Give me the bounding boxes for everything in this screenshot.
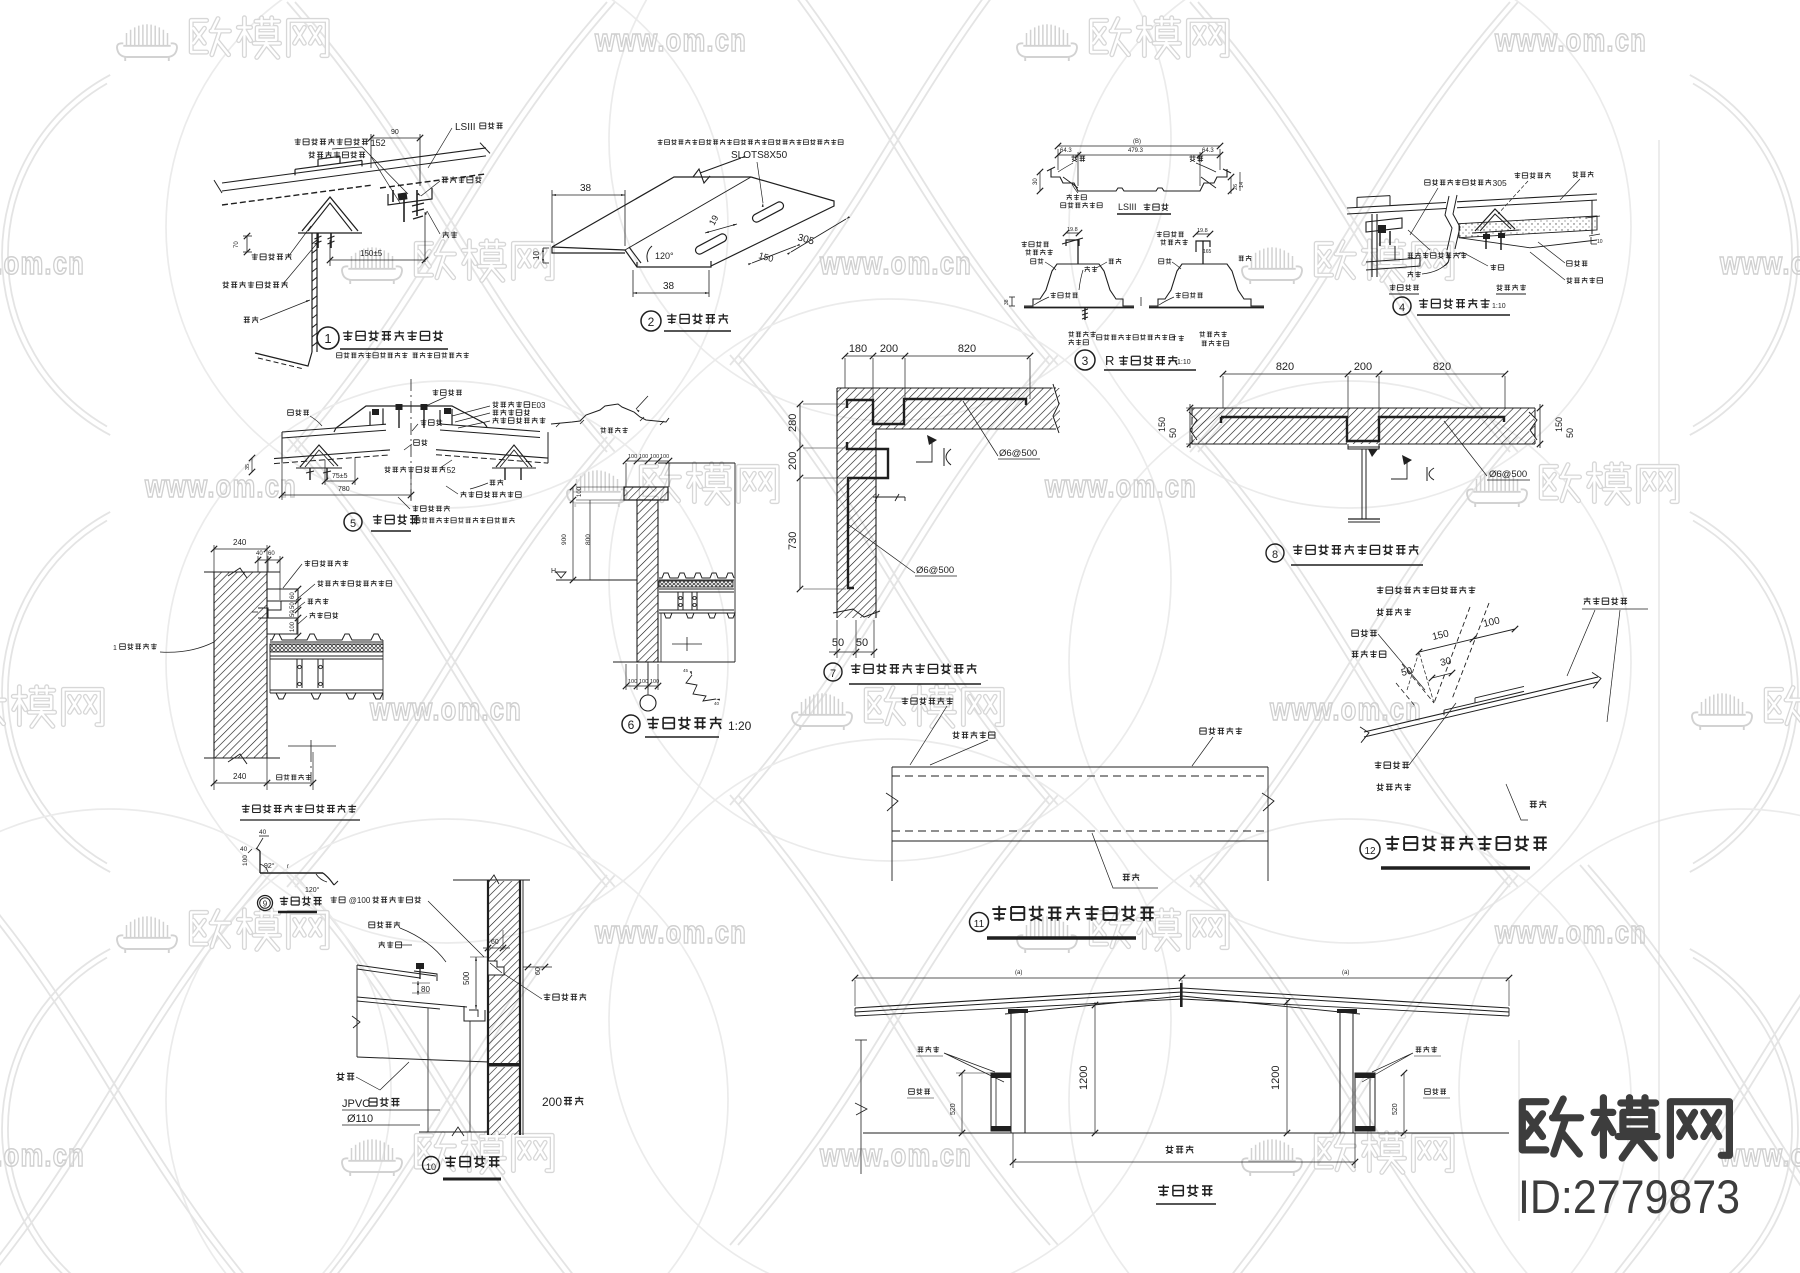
detail 1 right lap clip with fasteners [388, 188, 432, 222]
detail 2 dim 38 top-left [552, 183, 625, 246]
detail 7 bottom dims 50 50 [829, 620, 877, 658]
detail 1 label: liner panel [443, 231, 458, 238]
detail 2 dim 38 bottom [633, 270, 709, 297]
detail 10 brick wall with double edge lines [453, 875, 530, 1135]
detail 6 title: node detail two 1:20 [622, 715, 752, 737]
skylight right channel dims and labels [1362, 1046, 1450, 1136]
detail 7 rebar label lower [849, 525, 957, 576]
detail 6 top dims 100x4 [623, 454, 672, 487]
detail 1 label: support connection [222, 281, 287, 288]
detail 11 panel plan lines [886, 767, 1274, 881]
detail 6 brick wall with hatch [637, 500, 658, 662]
detail 2 top edge break mark and arrow [693, 156, 745, 183]
detail 5 dims below [245, 455, 414, 500]
gable flashing caption [240, 805, 360, 821]
detail 4 title bubble [1393, 297, 1510, 315]
svg-text:100: 100 [650, 679, 659, 685]
detail 10 dim 80 [412, 981, 430, 995]
detail 12 title [1360, 836, 1547, 868]
detail 4 left clip assembly with screws [1366, 214, 1420, 277]
svg-text:92°: 92° [264, 862, 275, 870]
svg-text:100: 100 [628, 454, 637, 460]
gable flashing center mark and lower lines [288, 740, 336, 785]
detail 10 dim 500 [462, 957, 488, 1009]
detail 8 side dims 150 50 left [1157, 404, 1193, 448]
detail 6 concrete capping beam [624, 487, 668, 500]
detail 5 title bubble [344, 513, 515, 531]
detail 1 note text line [337, 352, 469, 358]
detail 6 lower wall edge and center mark [661, 613, 702, 662]
detail 1 dimension 90 top [368, 129, 423, 186]
detail 4 sloped roof band left segment [1347, 196, 1446, 214]
site logo brand characters [1522, 1098, 1729, 1158]
svg-text:1:10: 1:10 [1492, 303, 1506, 310]
skylight top dimension line [852, 970, 1512, 1006]
svg-text:E03: E03 [531, 401, 546, 410]
svg-text:T: T [1172, 336, 1177, 343]
svg-text:100: 100 [628, 679, 637, 685]
detail 9 title double bubble [258, 896, 322, 913]
svg-text:www.om.cn: www.om.cn [369, 691, 522, 727]
svg-text:60: 60 [491, 939, 499, 946]
svg-text:1: 1 [324, 331, 331, 346]
gable flashing bottom dims [211, 752, 316, 790]
detail 2 angle 120 label and arc [647, 246, 674, 262]
svg-text:60: 60 [290, 592, 296, 599]
svg-text:10: 10 [1597, 239, 1603, 245]
svg-text:www.om.cn: www.om.cn [594, 22, 747, 58]
detail 5 center fastener pins [396, 404, 428, 428]
detail 10 dim 60 right rotated [523, 964, 552, 975]
svg-text:100: 100 [639, 679, 648, 685]
svg-text:40: 40 [259, 829, 267, 836]
gable flashing wall section with hatch [204, 568, 280, 764]
svg-text:165: 165 [1203, 249, 1212, 255]
svg-text:200: 200 [880, 343, 898, 355]
svg-text:200: 200 [542, 1095, 562, 1109]
svg-text:JPVC: JPVC [342, 1098, 370, 1110]
detail 8 wall band plan with hatch [1188, 408, 1537, 444]
svg-text:Ø110: Ø110 [347, 1113, 373, 1125]
svg-text:LSIII: LSIII [455, 122, 476, 133]
svg-text:www.om.cn: www.om.cn [1269, 691, 1422, 727]
svg-text:60: 60 [535, 967, 542, 975]
svg-text:www.om.cn: www.om.cn [0, 1137, 85, 1173]
svg-text:120°: 120° [305, 886, 320, 894]
detail 2 gable connector plate isometric outline [552, 177, 834, 267]
svg-text:152: 152 [371, 138, 386, 148]
svg-text:35: 35 [245, 464, 251, 470]
svg-text:60: 60 [268, 551, 275, 557]
detail 6 right enclosure box [613, 463, 735, 662]
detail 9 dims and angles [240, 829, 327, 894]
svg-text:70: 70 [234, 241, 240, 248]
detail 12 labels left [1352, 586, 1476, 690]
detail 1 label: stainless flashing strip [442, 176, 482, 183]
svg-text:50: 50 [290, 610, 296, 617]
svg-text:www.om.cn: www.om.cn [819, 1137, 972, 1173]
detail 7 spur mark below corner [873, 494, 905, 501]
svg-text:200: 200 [787, 452, 799, 470]
svg-text:(a): (a) [1015, 970, 1022, 976]
svg-text:1:10: 1:10 [1177, 359, 1191, 366]
detail 4 sloped roof band right segment with stipple insulation [1457, 194, 1597, 248]
detail 2 dim 305 right edge [787, 216, 850, 255]
svg-text:240: 240 [233, 538, 247, 547]
svg-text:200: 200 [1354, 361, 1372, 373]
detail 2 slot holes 8x50 [694, 200, 785, 255]
svg-text:90: 90 [391, 129, 399, 136]
detail 10 labels top: nail and gutter plate [331, 896, 484, 962]
svg-text:9: 9 [263, 900, 268, 909]
svg-text:280: 280 [787, 414, 799, 432]
skylight ridge center joint [1180, 983, 1183, 1007]
svg-text:www.om.cn: www.om.cn [1044, 468, 1197, 504]
skylight right side channel frame [1355, 1073, 1375, 1131]
vertical fold hairlines [1658, 140, 1660, 1221]
svg-text:38: 38 [663, 281, 675, 292]
svg-text:www.om.cn: www.om.cn [594, 914, 747, 950]
gable flashing step pieces on wall [252, 589, 298, 634]
detail 2 title bubble and text [641, 311, 731, 331]
svg-text:www.om.cn: www.om.cn [1494, 914, 1647, 950]
svg-text:10: 10 [532, 251, 541, 260]
detail 5 left panel assembly [274, 408, 390, 480]
svg-text:820: 820 [1276, 361, 1294, 373]
skylight left curb post [1008, 1009, 1028, 1133]
detail 8 title [1266, 544, 1423, 565]
svg-text:100: 100 [639, 454, 648, 460]
detail 2 dim 150 right [748, 244, 800, 266]
detail 7 top dims 180 200 820 [842, 343, 1033, 400]
detail 3 R-seam labels [1004, 231, 1251, 306]
svg-text:www.om.cn: www.om.cn [819, 245, 972, 281]
svg-text:6: 6 [628, 718, 635, 732]
svg-text:8: 8 [1272, 549, 1278, 561]
detail 6 insulation cross-hatch band [659, 581, 733, 587]
svg-text:www.om.cn: www.om.cn [0, 245, 85, 281]
svg-text:(a): (a) [1342, 970, 1349, 976]
detail 7 title [824, 663, 981, 684]
svg-text:50: 50 [1168, 428, 1178, 438]
skylight left channel dims and labels [907, 1046, 1004, 1136]
svg-text:Ø6@500: Ø6@500 [1489, 469, 1527, 480]
detail 3 R-seam right roof panel mountain profile [1149, 228, 1264, 308]
svg-text:100: 100 [660, 454, 669, 460]
gable flashing beam and purlins with bolts [270, 640, 383, 700]
detail 8 notch below wall center [1348, 444, 1379, 449]
svg-text:(B): (B) [1133, 139, 1141, 145]
svg-text:45: 45 [683, 668, 689, 673]
svg-text:LSIII: LSIII [1118, 202, 1137, 212]
skylight roof gable beam lines [855, 988, 1509, 1016]
svg-text:150: 150 [1157, 417, 1167, 432]
svg-text:1: 1 [113, 645, 117, 652]
svg-text:3: 3 [1082, 354, 1089, 368]
svg-text:520: 520 [1392, 1103, 1399, 1115]
skylight left edge reference line [855, 1040, 867, 1174]
detail 10 label color-steel flashing [504, 974, 586, 1001]
detail 1 label: roof panel support [252, 253, 292, 260]
svg-text:150: 150 [1554, 417, 1564, 432]
svg-text:500: 500 [462, 971, 471, 985]
detail 2 dim 19 on plate [705, 213, 737, 233]
detail 1 label: sealant at panel end lap [308, 151, 365, 158]
detail 2 note text and SLOTS8X50 [658, 139, 844, 207]
svg-text:64.3: 64.3 [1060, 148, 1072, 154]
detail 11 title [970, 906, 1154, 938]
detail 7 upper anchor rebar thick line [847, 399, 1026, 424]
detail 3 LSIII sheet profile section [1047, 167, 1231, 191]
svg-text:ID:2779873: ID:2779873 [1518, 1170, 1740, 1223]
detail 11 labels [902, 697, 1243, 888]
svg-text:150±5: 150±5 [360, 249, 383, 258]
detail 12 sloped panel band [1360, 672, 1601, 742]
svg-text:100: 100 [290, 621, 296, 632]
detail 12 label purlin [1506, 784, 1546, 820]
gable flashing label cement nail left [113, 642, 214, 652]
svg-text:730: 730 [787, 532, 799, 550]
svg-text:5: 5 [350, 518, 356, 530]
svg-text:820: 820 [958, 343, 976, 355]
detail 6 bottom dims 100x3 and detail bubble [623, 662, 661, 711]
skylight floor line [863, 1132, 1509, 1134]
skylight right curb post [1337, 1009, 1357, 1133]
skylight title [1156, 1185, 1216, 1204]
detail 1 support bracket triangle [298, 197, 362, 248]
detail 12 label roof panel right [1567, 597, 1648, 722]
svg-text:11: 11 [974, 919, 985, 930]
gable flashing labels right [283, 560, 392, 624]
svg-text:180: 180 [849, 343, 867, 355]
svg-text:50: 50 [856, 637, 868, 649]
svg-text:2: 2 [648, 315, 655, 329]
detail 7 section cut symbol [916, 435, 951, 466]
detail 1 label: purlin [244, 316, 258, 323]
detail 5 labels [288, 389, 546, 511]
svg-text:Ø6@500: Ø6@500 [999, 448, 1037, 459]
detail 3 LSIII section title [1117, 202, 1171, 214]
svg-text:479.3: 479.3 [1128, 148, 1144, 154]
svg-text:Ø6@500: Ø6@500 [916, 565, 954, 576]
detail 4 break lines center [1445, 195, 1460, 250]
detail 1 title bubble and text [317, 327, 448, 349]
detail 1 dimension 70 left [234, 233, 252, 255]
detail 4 right end edge and lower flashing [1444, 200, 1592, 266]
svg-text:800: 800 [585, 534, 592, 545]
svg-text:12: 12 [1364, 846, 1376, 857]
svg-text:75±5: 75±5 [332, 473, 348, 480]
detail 8 anchor rebar thick line with center step [1221, 417, 1504, 441]
detail 3 R-seam left roof panel mountain profile [1024, 227, 1134, 320]
svg-text:38: 38 [580, 183, 592, 194]
svg-text:1200: 1200 [1270, 1066, 1282, 1090]
svg-text:40: 40 [256, 551, 263, 557]
svg-text:SLOTS8X50: SLOTS8X50 [731, 150, 788, 161]
svg-text:40: 40 [714, 701, 720, 706]
skylight bottom dim see-plan [1010, 1133, 1358, 1168]
svg-text:100: 100 [650, 454, 659, 460]
svg-text:240: 240 [233, 772, 247, 781]
detail 8 rebar label [1444, 421, 1530, 480]
svg-text:@100: @100 [349, 896, 371, 905]
svg-text:305: 305 [1493, 178, 1507, 188]
detail 3 labels curling edge left/right [1071, 155, 1085, 161]
svg-text:1:20: 1:20 [728, 719, 752, 733]
detail 1 purlin below joint [255, 233, 317, 369]
svg-text:www.om.cn: www.om.cn [1494, 22, 1647, 58]
detail 10 steel beam line [336, 1057, 489, 1090]
gable flashing insulation band [270, 644, 383, 652]
gable flashing top dim 240 [211, 538, 270, 572]
svg-text:100: 100 [242, 855, 249, 866]
svg-text:H: H [551, 568, 556, 575]
detail 10 bottom break line [419, 1127, 489, 1136]
detail 10 title [423, 1156, 502, 1179]
svg-text:30: 30 [1033, 178, 1039, 185]
detail 6 flashing z-profile sketch [683, 668, 720, 706]
gable flashing right dim column 60 50 50 100 [290, 586, 301, 639]
detail 5 ridge cap profile sketch right [551, 396, 669, 433]
detail 9 flashing profile shape [256, 836, 338, 885]
skylight left side channel frame [991, 1073, 1011, 1131]
detail 3 profile side dims 30 [1033, 169, 1245, 194]
gable flashing dims 40 60 [255, 551, 283, 600]
detail 12 screw dashed lines [1396, 603, 1489, 706]
svg-text:50: 50 [290, 602, 296, 609]
detail 4 sub captions [1389, 284, 1526, 294]
detail 10 dim 60 top [483, 930, 510, 951]
svg-text:www.om.cn: www.om.cn [1719, 245, 1800, 281]
svg-text:520: 520 [950, 1103, 957, 1115]
svg-text:19.8: 19.8 [1197, 228, 1208, 234]
detail 3 title bubble R-type lock seam [1075, 350, 1196, 370]
detail 3 label self-drilling screw (factory) [1067, 194, 1087, 200]
detail 4 right support bracket triangle with screws [1472, 209, 1519, 250]
svg-text:64.3: 64.3 [1202, 148, 1214, 154]
svg-text:www.om.cn: www.om.cn [144, 468, 297, 504]
svg-text:900: 900 [561, 534, 568, 545]
detail 1 T-clip plate at panel top [295, 156, 362, 175]
svg-text:120°: 120° [655, 251, 674, 261]
detail 7 left leg anchor rebar thick line [847, 442, 888, 588]
svg-text:50: 50 [1565, 428, 1575, 438]
detail 6 roof panel corrugated section [659, 573, 734, 580]
svg-text:100: 100 [577, 486, 583, 497]
svg-text:52: 52 [447, 466, 456, 475]
svg-text:R: R [1105, 353, 1114, 368]
detail 5 right panel assembly [436, 408, 548, 480]
detail 8 top dims 820 200 820 [1220, 361, 1508, 417]
svg-text:1200: 1200 [1078, 1066, 1090, 1090]
detail 6 left dims and ground symbol [551, 484, 637, 583]
detail 12 labels sealant bottom [1375, 703, 1456, 791]
detail 1 dimension 150±5 [327, 212, 428, 266]
svg-text:38: 38 [1004, 299, 1010, 305]
svg-text:40: 40 [240, 846, 248, 853]
svg-text:50: 50 [832, 637, 844, 649]
detail 7 L-shaped wall plan with hatch [833, 384, 1060, 618]
detail 8 steel I-beam below [1348, 447, 1380, 522]
detail 10 labels JPVC pipe and brick wall [342, 1095, 583, 1125]
detail 1 roof panel lap joint: sloped panel band [214, 143, 490, 205]
detail 8 section cut symbol [1391, 455, 1434, 481]
detail 4 dim 10 right edge [1586, 216, 1603, 245]
detail 5 ridge centerline [410, 379, 412, 505]
svg-text:820: 820 [1433, 361, 1451, 373]
svg-text:r: r [287, 864, 289, 870]
detail 10 wall left step flashing [488, 961, 504, 976]
svg-text:19.8: 19.8 [1067, 227, 1078, 233]
svg-text:4: 4 [1399, 302, 1405, 314]
gable flashing roof deck corrugated [270, 634, 383, 642]
detail 7 rebar label upper [963, 401, 1040, 459]
detail 4 leader labels top [1410, 171, 1594, 235]
detail 8 side dims 150 50 right [1537, 404, 1575, 448]
detail 3 profile overall dims 64.3 479.3 64.3 [1055, 139, 1223, 186]
detail 5 ridge cap plate [334, 406, 487, 432]
svg-text:80: 80 [421, 985, 430, 994]
skylight 1200 dims [1078, 999, 1290, 1136]
detail 12 sloped dims 150 100 30 50 [1400, 615, 1518, 703]
detail 4 leader labels bottom-left [1408, 230, 1603, 284]
detail 3 seam notes below [1068, 331, 1228, 346]
svg-text:10: 10 [426, 1162, 436, 1172]
detail 12 lap panel piece above [1444, 686, 1524, 715]
detail 6 purlin and beam lines with bolts [659, 589, 735, 618]
detail 2 dim 10 left [532, 248, 549, 263]
detail 7 left dims 280 200 730 [787, 401, 847, 592]
svg-text:7: 7 [830, 668, 836, 680]
detail 1 label: self-drilling screw spacing 152 [295, 138, 368, 145]
detail 10 gutter assembly [352, 963, 485, 1132]
svg-text:780: 780 [338, 486, 350, 493]
